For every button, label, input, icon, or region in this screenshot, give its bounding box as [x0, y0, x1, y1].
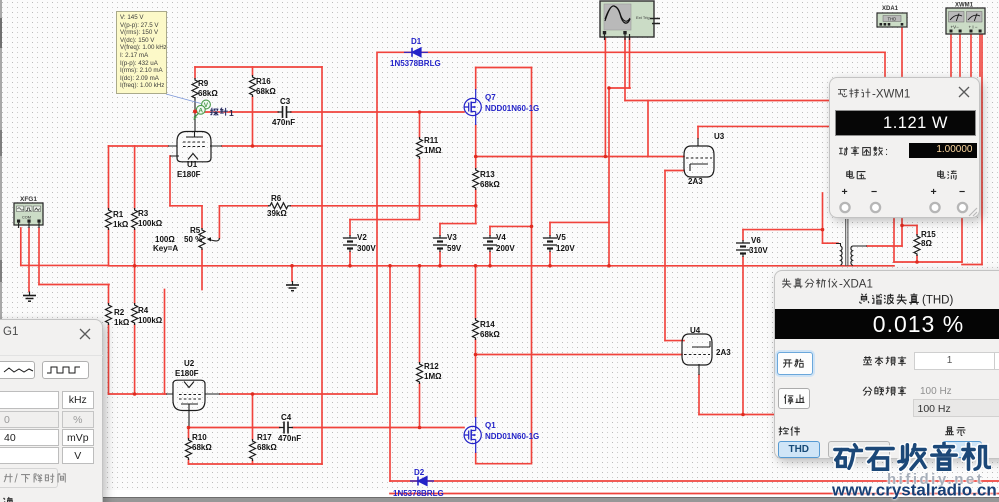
svg-text:+V−: +V− — [951, 25, 960, 30]
svg-text:59V: 59V — [447, 244, 462, 253]
svg-text:68kΩ: 68kΩ — [480, 330, 500, 339]
svg-text:NDD01N60-1G: NDD01N60-1G — [485, 104, 539, 113]
svg-text:V5: V5 — [556, 233, 566, 242]
svg-text:R4: R4 — [138, 306, 149, 315]
svg-text:R5: R5 — [190, 226, 201, 235]
svg-text:1N5378BRLG: 1N5378BRLG — [390, 59, 441, 68]
svg-text:(THD): (THD) — [922, 295, 953, 307]
svg-text:C3: C3 — [280, 97, 291, 106]
svg-text:68kΩ: 68kΩ — [198, 89, 218, 98]
svg-text:120V: 120V — [556, 244, 575, 253]
svg-text:E180F: E180F — [177, 170, 201, 179]
svg-text:+: + — [841, 186, 847, 198]
svg-text:R9: R9 — [198, 79, 209, 88]
svg-text:D2: D2 — [414, 468, 425, 477]
svg-text:68kΩ: 68kΩ — [192, 443, 212, 452]
svg-text:R17: R17 — [257, 433, 272, 442]
svg-text:-XWM1: -XWM1 — [872, 88, 910, 100]
svg-text:R2: R2 — [114, 308, 125, 317]
svg-text:V3: V3 — [447, 233, 457, 242]
svg-text:XDA1: XDA1 — [882, 6, 899, 12]
svg-text:R3: R3 — [138, 209, 149, 218]
svg-text:V4: V4 — [496, 233, 506, 242]
svg-text:1kΩ: 1kΩ — [114, 318, 130, 327]
svg-text:R6: R6 — [271, 194, 282, 203]
svg-text:100Ω: 100Ω — [155, 235, 175, 244]
svg-text:Ext Trig: Ext Trig — [636, 15, 650, 20]
svg-text:R1: R1 — [113, 210, 124, 219]
svg-text::: : — [885, 146, 888, 158]
svg-text:V2: V2 — [357, 233, 367, 242]
svg-text:50 %: 50 % — [184, 235, 202, 244]
svg-text:C4: C4 — [281, 413, 292, 422]
svg-text:-XDA1: -XDA1 — [839, 279, 873, 291]
svg-text:R16: R16 — [256, 77, 271, 86]
svg-text:U2: U2 — [184, 359, 195, 368]
svg-text:2A3: 2A3 — [716, 348, 731, 357]
svg-text:U3: U3 — [714, 132, 725, 141]
svg-text:R11: R11 — [424, 136, 439, 145]
svg-text:XWM1: XWM1 — [955, 3, 974, 9]
svg-text:A: A — [198, 107, 203, 114]
svg-text:COM: COM — [22, 216, 31, 220]
svg-text:300V: 300V — [357, 244, 376, 253]
svg-text:470nF: 470nF — [278, 434, 301, 443]
svg-text:−: − — [959, 186, 965, 198]
svg-text:Q1: Q1 — [485, 421, 496, 430]
svg-text:+: + — [930, 186, 936, 198]
svg-text:U1: U1 — [187, 160, 198, 169]
svg-text:E180F: E180F — [175, 369, 199, 378]
svg-text:R10: R10 — [192, 433, 207, 442]
svg-text:470nF: 470nF — [272, 118, 295, 127]
svg-text:68kΩ: 68kΩ — [256, 87, 276, 96]
svg-text:D1: D1 — [411, 37, 422, 46]
svg-text:100kΩ: 100kΩ — [138, 219, 163, 228]
svg-text:200V: 200V — [496, 244, 515, 253]
svg-text:R15: R15 — [921, 230, 936, 239]
svg-text:XFG1: XFG1 — [20, 196, 37, 203]
svg-text:310V: 310V — [749, 246, 768, 255]
svg-text:Q7: Q7 — [485, 93, 496, 102]
svg-text:Key=A: Key=A — [153, 244, 178, 253]
svg-text:NDD01N60-1G: NDD01N60-1G — [485, 432, 539, 441]
svg-text:1MΩ: 1MΩ — [424, 372, 442, 381]
svg-text:THD: THD — [888, 17, 897, 22]
svg-text:−: − — [871, 186, 877, 198]
svg-text:U4: U4 — [690, 326, 701, 335]
svg-text:R12: R12 — [424, 362, 439, 371]
svg-text:8Ω: 8Ω — [921, 239, 932, 248]
svg-text:68kΩ: 68kΩ — [257, 443, 277, 452]
svg-text:2A3: 2A3 — [688, 177, 703, 186]
svg-text:R14: R14 — [480, 320, 495, 329]
svg-text:68kΩ: 68kΩ — [480, 180, 500, 189]
svg-text:100kΩ: 100kΩ — [138, 316, 163, 325]
svg-text:www.crystalradio.cn: www.crystalradio.cn — [831, 481, 997, 500]
svg-text:39kΩ: 39kΩ — [267, 209, 287, 218]
svg-text:+ I −: + I − — [969, 25, 978, 30]
svg-text:/: / — [15, 474, 19, 486]
svg-text:R13: R13 — [480, 170, 495, 179]
svg-text:1MΩ: 1MΩ — [424, 146, 442, 155]
svg-text:1: 1 — [229, 108, 234, 118]
svg-text:1kΩ: 1kΩ — [113, 220, 129, 229]
svg-text:V6: V6 — [751, 236, 761, 245]
